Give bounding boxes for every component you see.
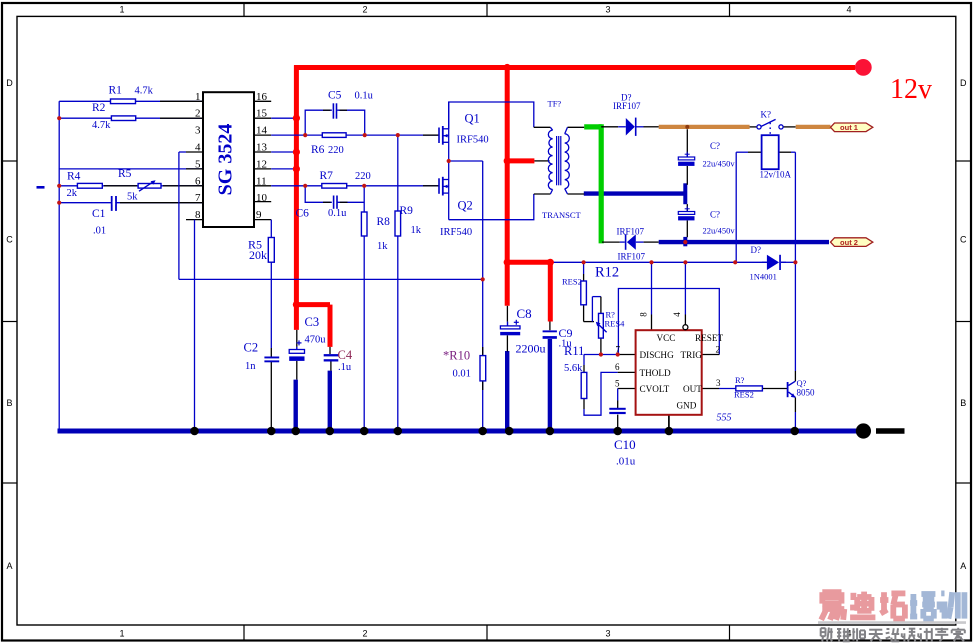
svg-text:*R10: *R10 <box>443 349 470 363</box>
svg-text:4: 4 <box>846 5 851 15</box>
svg-text:R4: R4 <box>67 171 81 183</box>
svg-text:12v/10A: 12v/10A <box>760 170 792 180</box>
svg-text:IRF107: IRF107 <box>617 227 645 237</box>
svg-text:2: 2 <box>195 108 201 120</box>
svg-text:1: 1 <box>119 629 124 639</box>
svg-text:0.1u: 0.1u <box>355 91 374 102</box>
svg-text:12v: 12v <box>890 74 932 105</box>
svg-text:2k: 2k <box>67 188 78 199</box>
svg-text:out 1: out 1 <box>840 123 858 132</box>
svg-text:R12: R12 <box>595 265 619 281</box>
svg-text:SG 3524: SG 3524 <box>215 124 237 196</box>
svg-text:VCC: VCC <box>657 333 676 343</box>
svg-text:12: 12 <box>256 158 267 170</box>
svg-text:A: A <box>6 561 12 571</box>
svg-text:9: 9 <box>256 209 262 221</box>
svg-text:470u: 470u <box>305 335 327 346</box>
svg-text:IRF107: IRF107 <box>613 101 641 111</box>
svg-text:1k: 1k <box>411 225 422 236</box>
svg-text:22u/450v: 22u/450v <box>703 159 736 169</box>
svg-text:5k: 5k <box>127 192 138 203</box>
svg-text:5: 5 <box>615 379 620 389</box>
svg-text:Q1: Q1 <box>465 112 480 126</box>
svg-text:C?: C? <box>710 141 720 151</box>
svg-text:8: 8 <box>639 312 649 317</box>
svg-text:1N4001: 1N4001 <box>750 272 777 282</box>
svg-text:20k: 20k <box>249 248 267 262</box>
svg-text:4.7k: 4.7k <box>92 120 111 131</box>
svg-text:Q2: Q2 <box>458 199 473 213</box>
svg-text:4: 4 <box>195 142 201 154</box>
svg-text:22u/450v: 22u/450v <box>703 226 736 236</box>
svg-text:TRANSCT: TRANSCT <box>542 210 582 220</box>
svg-text:B: B <box>960 398 966 408</box>
svg-text:C?: C? <box>710 210 720 220</box>
svg-text:THOLD: THOLD <box>640 368 671 378</box>
svg-text:7: 7 <box>616 345 621 355</box>
svg-text:D: D <box>6 78 13 88</box>
svg-text:C3: C3 <box>305 315 320 329</box>
svg-text:4: 4 <box>672 312 682 317</box>
svg-text:TRIG: TRIG <box>681 350 703 360</box>
svg-text:1n: 1n <box>245 361 256 372</box>
svg-text:1: 1 <box>195 91 201 103</box>
svg-text:220: 220 <box>328 145 344 156</box>
svg-text:GND: GND <box>677 401 697 411</box>
svg-text:1: 1 <box>119 5 124 15</box>
svg-text:5.6k: 5.6k <box>564 363 583 374</box>
svg-text:15: 15 <box>256 108 268 120</box>
svg-text:0.1u: 0.1u <box>328 208 347 219</box>
svg-text:C: C <box>960 235 967 245</box>
svg-text:8050: 8050 <box>797 388 816 398</box>
svg-text:DISCHG: DISCHG <box>640 350 675 360</box>
svg-text:R1: R1 <box>109 85 123 97</box>
svg-text:7: 7 <box>195 192 201 204</box>
svg-text:.1u: .1u <box>338 362 352 373</box>
svg-text:R11: R11 <box>564 344 584 358</box>
svg-text:RES2: RES2 <box>562 277 582 287</box>
svg-text:11: 11 <box>256 175 267 187</box>
svg-text:2: 2 <box>362 629 367 639</box>
svg-text:2: 2 <box>716 345 721 355</box>
svg-text:10: 10 <box>256 192 268 204</box>
svg-text:C4: C4 <box>338 348 353 362</box>
svg-text:3: 3 <box>195 125 201 137</box>
svg-text:RESET: RESET <box>695 333 723 343</box>
svg-text:6: 6 <box>195 175 201 187</box>
svg-text:R2: R2 <box>92 102 106 114</box>
svg-text:13: 13 <box>256 142 268 154</box>
svg-text:TF?: TF? <box>548 99 562 109</box>
svg-text:R?: R? <box>735 375 745 385</box>
svg-text:.01: .01 <box>93 226 106 237</box>
svg-text:C5: C5 <box>328 90 342 102</box>
svg-text:1k: 1k <box>377 241 388 252</box>
svg-text:5: 5 <box>195 158 201 170</box>
svg-text:Q?: Q? <box>797 378 807 388</box>
svg-text:B: B <box>6 398 12 408</box>
svg-text:8: 8 <box>195 209 201 221</box>
svg-text:A: A <box>960 561 966 571</box>
svg-text:CVOLT: CVOLT <box>640 384 670 394</box>
svg-text:R9: R9 <box>400 205 414 217</box>
svg-text:3: 3 <box>605 629 610 639</box>
svg-text:3: 3 <box>605 5 610 15</box>
svg-text:C: C <box>6 235 13 245</box>
svg-text:.01u: .01u <box>616 456 636 468</box>
svg-text:220: 220 <box>355 171 371 182</box>
svg-text:IRF107: IRF107 <box>618 252 646 262</box>
svg-text:2: 2 <box>362 5 367 15</box>
svg-text:R7: R7 <box>320 170 334 182</box>
svg-text:C6: C6 <box>296 208 310 220</box>
svg-text:R6: R6 <box>311 144 325 156</box>
svg-text:R5: R5 <box>118 168 132 180</box>
svg-text:C2: C2 <box>244 341 259 355</box>
svg-text:K?: K? <box>761 110 772 120</box>
svg-text:IRF540: IRF540 <box>440 227 472 238</box>
svg-text:2200u: 2200u <box>516 342 546 356</box>
svg-text:RES2: RES2 <box>734 390 754 400</box>
svg-text:C10: C10 <box>614 437 636 452</box>
svg-text:OUT: OUT <box>683 384 702 394</box>
svg-text:out 2: out 2 <box>840 238 858 247</box>
svg-text:4.7k: 4.7k <box>135 86 154 97</box>
svg-text:555: 555 <box>717 413 732 424</box>
svg-text:RES4: RES4 <box>605 319 626 329</box>
svg-text:D: D <box>960 78 967 88</box>
svg-text:0.01: 0.01 <box>453 369 471 380</box>
svg-text:14: 14 <box>256 125 268 137</box>
svg-text:C8: C8 <box>517 306 532 321</box>
svg-text:3: 3 <box>716 378 721 388</box>
svg-text:IRF540: IRF540 <box>457 135 489 146</box>
svg-text:C1: C1 <box>92 208 106 220</box>
svg-text:6: 6 <box>615 362 620 372</box>
svg-text:16: 16 <box>256 91 268 103</box>
svg-text:D?: D? <box>751 245 762 255</box>
svg-text:R8: R8 <box>377 216 391 228</box>
